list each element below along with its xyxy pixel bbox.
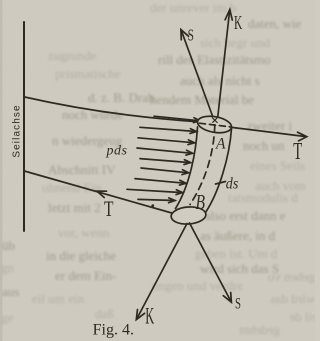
svg-text:wird das: wird das: [271, 291, 315, 306]
svg-text:K: K: [145, 303, 154, 328]
force K at B (down-left): [137, 224, 187, 320]
svg-text:as äußere, in d: as äußere, in d: [200, 228, 276, 243]
p ds arrow 9: [138, 199, 175, 200]
svg-text:K: K: [234, 12, 243, 34]
cylinder top ellipse: [196, 114, 233, 135]
svg-text:ds: ds: [226, 176, 239, 193]
svg-text:noch un: noch un: [243, 138, 285, 153]
force S at A (up-left): [181, 30, 213, 116]
svg-text:T: T: [104, 196, 114, 221]
svg-text:Seilachse: Seilachse: [11, 104, 22, 157]
svg-text:pds: pds: [106, 144, 128, 159]
svg-text:üb: üb: [2, 238, 15, 253]
tension line T at A, cylinder to right arrow: [232, 127, 306, 136]
svg-text:gedehnt: gedehnt: [238, 322, 280, 337]
p ds arrow 6: [141, 168, 189, 173]
svg-text:prismatische: prismatische: [55, 66, 121, 81]
svg-text:auch als nicht s: auch als nicht s: [180, 73, 260, 88]
bottom tangent line, axis to cylinder: [24, 171, 173, 214]
svg-text:wird sich das S: wird sich das S: [200, 261, 279, 276]
svg-text:geben ist. Um d: geben ist. Um d: [195, 246, 278, 261]
svg-text:S: S: [235, 295, 241, 312]
svg-text:ungen und verdre: ungen und verdre: [152, 278, 243, 293]
x mark at A top: [213, 118, 218, 123]
cylinder bottom ellipse: [171, 206, 207, 225]
p ds arrow 2: [140, 127, 197, 131]
svg-text:zugrunde: zugrunde: [48, 48, 97, 63]
p ds arrow 4: [137, 148, 193, 153]
p ds arrow 3: [138, 138, 195, 143]
rope axis (Seilachse) vertical line: [23, 22, 25, 231]
p ds arrow 1: [154, 116, 200, 121]
svg-text:tatsmodulis d: tatsmodulis d: [228, 190, 298, 205]
svg-text:A: A: [215, 136, 226, 153]
svg-text:ohnend Ein: ohnend Ein: [42, 180, 102, 195]
svg-text:Abschnitt IV: Abschnitt IV: [48, 162, 116, 177]
svg-text:T: T: [293, 139, 302, 165]
svg-text:S: S: [188, 26, 194, 45]
svg-text:also erst dann e: also erst dann e: [205, 208, 286, 223]
svg-text:in die gleiche: in die gleiche: [46, 248, 116, 263]
svg-text:hendem Material be: hendem Material be: [150, 92, 254, 107]
svg-text:eil um ein: eil um ein: [32, 291, 84, 306]
svg-text:daten, wie: daten, wie: [248, 16, 302, 31]
cylinder left edge: [176, 127, 198, 209]
svg-text:ge: ge: [1, 310, 14, 325]
svg-text:er dem Ein-: er dem Ein-: [55, 268, 116, 283]
svg-text:gn: gn: [1, 260, 15, 275]
svg-text:der unrever im b: der unrever im b: [150, 0, 236, 15]
svg-text:aus: aus: [2, 284, 19, 299]
svg-text:vor, wenn: vor, wenn: [58, 225, 110, 240]
ink dot on tangent: [151, 204, 154, 207]
cylinder right edge: [206, 129, 232, 213]
arrowhead T right: [298, 132, 307, 141]
svg-text:Seil de: Seil de: [289, 309, 315, 324]
p ds arrow 7: [135, 179, 186, 184]
svg-text:d. z. B. Drah: d. z. B. Drah: [88, 90, 155, 105]
top tangent line, axis to cylinder: [25, 97, 199, 122]
p ds arrow 5: [140, 159, 191, 163]
force S at B (down-right): [190, 223, 232, 302]
p ds arrow 8: [127, 189, 183, 192]
svg-text:rill des Elastizitätsmo: rill des Elastizitätsmo: [158, 52, 271, 67]
svg-text:letzt mit 2: letzt mit 2: [48, 200, 101, 215]
ds tick mark: [216, 182, 226, 185]
dashed diameter through top ellipse (T direction): [200, 123, 231, 127]
force K at A (up): [218, 10, 230, 117]
svg-text:daß: daß: [95, 306, 114, 321]
svg-text:B: B: [196, 190, 206, 214]
svg-text:sich begr und: sich begr und: [200, 35, 271, 50]
svg-text:gehen vo: gehen vo: [268, 269, 315, 284]
svg-text:Fig. 4.: Fig. 4.: [93, 322, 134, 339]
dashed element axis from A to B: [190, 125, 215, 205]
arrowhead T on bottom tangent (pointing up-left): [97, 191, 107, 197]
